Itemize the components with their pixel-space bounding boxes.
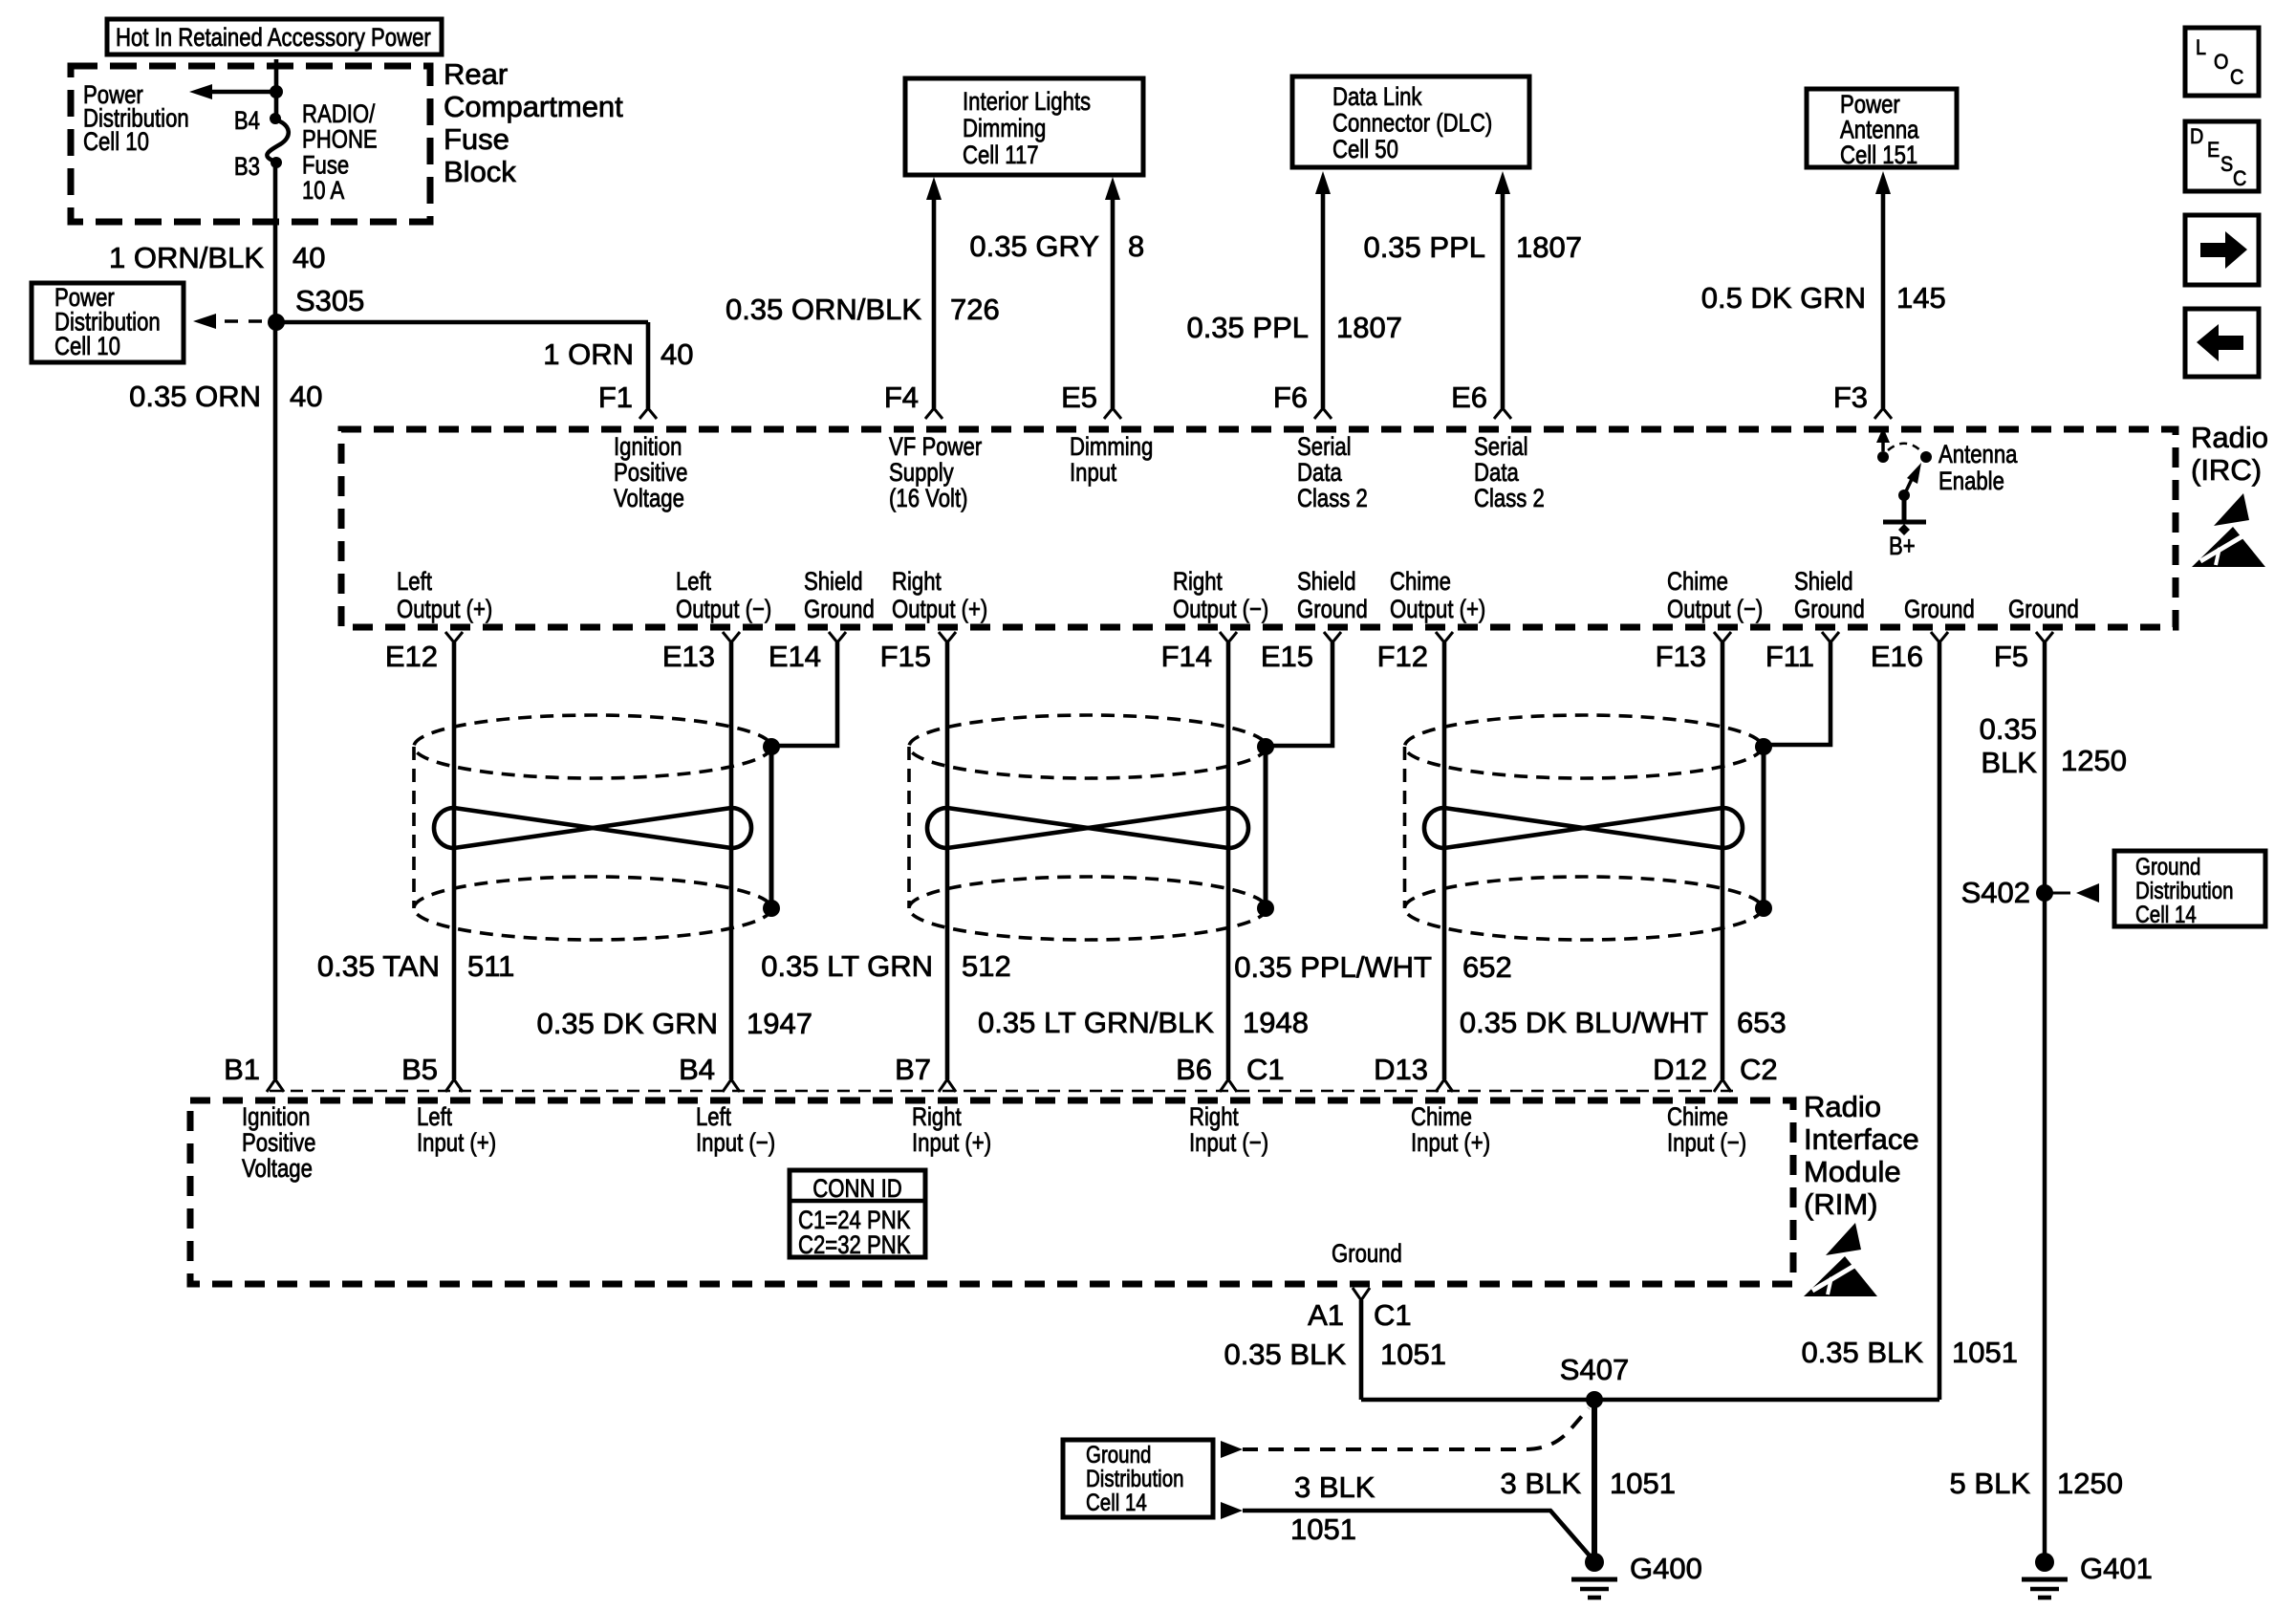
- svg-text:C: C: [2233, 166, 2246, 190]
- svg-text:Antenna: Antenna: [1840, 116, 1919, 144]
- svg-text:E16: E16: [1871, 640, 1923, 673]
- svg-text:(IRC): (IRC): [2191, 453, 2262, 487]
- svg-text:1 ORN/BLK: 1 ORN/BLK: [109, 241, 264, 274]
- svg-text:RADIO/: RADIO/: [302, 99, 376, 128]
- svg-text:B1: B1: [224, 1053, 260, 1086]
- svg-text:Left: Left: [417, 1102, 452, 1131]
- svg-text:Left: Left: [397, 567, 432, 596]
- svg-text:Distribution: Distribution: [2135, 878, 2234, 904]
- svg-text:512: 512: [962, 949, 1011, 983]
- svg-text:Power: Power: [1840, 90, 1900, 119]
- svg-text:1051: 1051: [1290, 1512, 1356, 1546]
- svg-text:Chime: Chime: [1667, 1102, 1728, 1131]
- svg-text:E15: E15: [1261, 640, 1313, 673]
- svg-text:1948: 1948: [1243, 1006, 1309, 1039]
- svg-text:S: S: [2220, 152, 2233, 176]
- svg-text:B5: B5: [401, 1053, 438, 1086]
- svg-text:Class 2: Class 2: [1297, 484, 1368, 512]
- svg-text:E12: E12: [385, 640, 438, 673]
- svg-text:Hot In Retained Accessory Powe: Hot In Retained Accessory Power: [116, 23, 431, 52]
- svg-text:BLK: BLK: [1981, 746, 2037, 779]
- svg-text:F1: F1: [598, 381, 633, 414]
- svg-text:Right: Right: [1189, 1102, 1239, 1131]
- svg-text:Output (+): Output (+): [892, 595, 987, 623]
- svg-text:Cell 151: Cell 151: [1840, 141, 1917, 169]
- svg-text:Connector (DLC): Connector (DLC): [1332, 109, 1492, 138]
- svg-text:Radio: Radio: [1804, 1090, 1881, 1123]
- svg-text:0.35 TAN: 0.35 TAN: [317, 949, 440, 983]
- svg-text:Left: Left: [696, 1102, 731, 1131]
- svg-text:1051: 1051: [1610, 1467, 1676, 1500]
- svg-text:Ground: Ground: [1297, 595, 1368, 623]
- svg-text:Voltage: Voltage: [614, 484, 684, 512]
- svg-text:Class 2: Class 2: [1474, 484, 1545, 512]
- svg-text:F12: F12: [1377, 640, 1428, 673]
- svg-text:Serial: Serial: [1474, 432, 1528, 461]
- svg-text:F11: F11: [1765, 640, 1814, 673]
- svg-text:Input (+): Input (+): [912, 1128, 991, 1157]
- svg-text:Voltage: Voltage: [242, 1154, 313, 1183]
- svg-text:G401: G401: [2080, 1552, 2153, 1585]
- svg-text:CONN ID: CONN ID: [812, 1174, 902, 1203]
- svg-text:(RIM): (RIM): [1804, 1187, 1877, 1221]
- svg-text:F13: F13: [1656, 640, 1706, 673]
- svg-text:Ignition: Ignition: [242, 1102, 310, 1131]
- svg-text:Output (−): Output (−): [1173, 595, 1268, 623]
- svg-text:Shield: Shield: [1794, 567, 1853, 596]
- svg-text:Enable: Enable: [1939, 467, 2004, 495]
- svg-text:Block: Block: [444, 155, 516, 188]
- svg-text:0.35 BLK: 0.35 BLK: [1224, 1338, 1346, 1371]
- svg-text:Compartment: Compartment: [444, 90, 623, 123]
- svg-text:3 BLK: 3 BLK: [1294, 1470, 1375, 1504]
- svg-text:A1: A1: [1308, 1298, 1344, 1332]
- svg-text:1807: 1807: [1336, 311, 1402, 344]
- svg-text:C2: C2: [1740, 1053, 1778, 1086]
- svg-text:B4: B4: [234, 106, 260, 135]
- svg-text:1051: 1051: [1952, 1336, 2018, 1369]
- svg-text:E14: E14: [769, 640, 821, 673]
- svg-text:Right: Right: [1173, 567, 1223, 596]
- svg-text:Radio: Radio: [2191, 421, 2268, 454]
- svg-text:Supply: Supply: [889, 458, 954, 487]
- svg-text:F14: F14: [1161, 640, 1212, 673]
- svg-text:Rear: Rear: [444, 57, 508, 91]
- svg-text:Cell 117: Cell 117: [963, 141, 1039, 169]
- svg-text:Input (+): Input (+): [1411, 1128, 1490, 1157]
- svg-text:D12: D12: [1653, 1053, 1707, 1086]
- svg-text:40: 40: [292, 241, 325, 274]
- svg-text:726: 726: [950, 293, 1000, 326]
- svg-text:8: 8: [1128, 229, 1144, 263]
- svg-text:Ground: Ground: [1332, 1239, 1402, 1268]
- svg-text:Ground: Ground: [804, 595, 875, 623]
- svg-text:1250: 1250: [2061, 744, 2127, 777]
- svg-text:Cell 50: Cell 50: [1332, 135, 1398, 163]
- svg-text:0.35 PPL/WHT: 0.35 PPL/WHT: [1234, 950, 1432, 984]
- svg-text:S402: S402: [1961, 876, 2030, 909]
- svg-text:E: E: [2207, 138, 2220, 162]
- svg-text:C1: C1: [1246, 1053, 1285, 1086]
- svg-text:Output (+): Output (+): [397, 595, 492, 623]
- svg-text:0.35 BLK: 0.35 BLK: [1801, 1336, 1923, 1369]
- svg-text:Shield: Shield: [804, 567, 863, 596]
- svg-text:511: 511: [467, 949, 514, 983]
- svg-text:1 ORN: 1 ORN: [543, 337, 634, 371]
- svg-text:Ground: Ground: [1794, 595, 1865, 623]
- svg-text:Left: Left: [676, 567, 711, 596]
- svg-text:Ground: Ground: [1086, 1442, 1151, 1469]
- svg-text:Cell 10: Cell 10: [83, 127, 149, 156]
- svg-text:Serial: Serial: [1297, 432, 1352, 461]
- svg-text:40: 40: [661, 337, 693, 371]
- svg-text:D13: D13: [1374, 1053, 1428, 1086]
- svg-text:0.35 GRY: 0.35 GRY: [969, 229, 1099, 263]
- svg-text:Fuse: Fuse: [444, 122, 509, 156]
- svg-text:0.35 LT GRN/BLK: 0.35 LT GRN/BLK: [978, 1006, 1214, 1039]
- svg-text:O: O: [2214, 50, 2228, 74]
- svg-text:Output (+): Output (+): [1390, 595, 1485, 623]
- svg-text:B3: B3: [234, 152, 260, 181]
- svg-text:S407: S407: [1560, 1353, 1629, 1386]
- svg-text:Right: Right: [892, 567, 942, 596]
- svg-text:B4: B4: [679, 1053, 715, 1086]
- svg-text:Input (+): Input (+): [417, 1128, 496, 1157]
- svg-text:Antenna: Antenna: [1939, 440, 2018, 468]
- svg-text:VF Power: VF Power: [889, 432, 982, 461]
- svg-text:F15: F15: [880, 640, 931, 673]
- svg-text:1051: 1051: [1380, 1338, 1446, 1371]
- svg-text:Input: Input: [1070, 458, 1117, 487]
- svg-text:Output (−): Output (−): [676, 595, 771, 623]
- svg-text:D: D: [2190, 124, 2203, 148]
- svg-text:E6: E6: [1451, 381, 1487, 414]
- svg-text:0.35 ORN: 0.35 ORN: [129, 380, 261, 413]
- svg-text:Cell 14: Cell 14: [1086, 1490, 1147, 1516]
- svg-text:0.35 LT GRN: 0.35 LT GRN: [761, 949, 933, 983]
- svg-text:Ignition: Ignition: [614, 432, 682, 461]
- svg-text:C: C: [2230, 65, 2243, 89]
- svg-text:(16 Volt): (16 Volt): [889, 484, 968, 512]
- svg-text:B6: B6: [1176, 1053, 1212, 1086]
- svg-text:L: L: [2196, 35, 2206, 59]
- svg-text:Interface: Interface: [1804, 1122, 1919, 1156]
- svg-text:Shield: Shield: [1297, 567, 1356, 596]
- svg-text:Data Link: Data Link: [1332, 82, 1422, 111]
- svg-text:3 BLK: 3 BLK: [1501, 1467, 1582, 1500]
- svg-text:1807: 1807: [1516, 230, 1582, 264]
- svg-text:Cell 10: Cell 10: [54, 332, 120, 360]
- svg-text:Right: Right: [912, 1102, 962, 1131]
- svg-text:F3: F3: [1833, 381, 1868, 414]
- svg-text:B7: B7: [895, 1053, 931, 1086]
- svg-text:Data: Data: [1297, 458, 1343, 487]
- svg-text:0.35 DK GRN: 0.35 DK GRN: [536, 1007, 718, 1040]
- svg-text:Dimming: Dimming: [963, 114, 1046, 142]
- svg-text:Chime: Chime: [1390, 567, 1451, 596]
- svg-text:40: 40: [290, 380, 322, 413]
- svg-text:0.35 PPL: 0.35 PPL: [1363, 230, 1485, 264]
- svg-text:E5: E5: [1061, 381, 1097, 414]
- svg-text:Positive: Positive: [242, 1128, 316, 1157]
- svg-text:Cell 14: Cell 14: [2135, 902, 2197, 928]
- svg-text:1250: 1250: [2057, 1467, 2123, 1500]
- svg-text:Output (−): Output (−): [1667, 595, 1763, 623]
- svg-text:5 BLK: 5 BLK: [1950, 1467, 2031, 1500]
- svg-text:Ground: Ground: [1904, 595, 1975, 623]
- svg-text:Distribution: Distribution: [1086, 1466, 1184, 1492]
- svg-text:Positive: Positive: [614, 458, 688, 487]
- svg-text:S305: S305: [295, 284, 364, 317]
- svg-text:Ground: Ground: [2135, 854, 2200, 881]
- svg-text:Data: Data: [1474, 458, 1520, 487]
- svg-text:0.35 DK BLU/WHT: 0.35 DK BLU/WHT: [1460, 1006, 1708, 1039]
- svg-text:0.35 ORN/BLK: 0.35 ORN/BLK: [726, 293, 921, 326]
- svg-text:PHONE: PHONE: [302, 125, 378, 154]
- svg-text:F5: F5: [1994, 640, 2028, 673]
- svg-text:652: 652: [1462, 950, 1512, 984]
- svg-text:Input (−): Input (−): [696, 1128, 775, 1157]
- svg-text:C1: C1: [1374, 1298, 1412, 1332]
- svg-text:G400: G400: [1630, 1552, 1702, 1585]
- svg-text:Chime: Chime: [1411, 1102, 1472, 1131]
- svg-text:Interior Lights: Interior Lights: [963, 87, 1091, 116]
- svg-text:C2=32 PNK: C2=32 PNK: [798, 1230, 911, 1259]
- svg-text:0.35: 0.35: [1980, 712, 2037, 746]
- svg-text:1947: 1947: [747, 1007, 812, 1040]
- svg-text:Input (−): Input (−): [1189, 1128, 1268, 1157]
- svg-text:F6: F6: [1273, 381, 1308, 414]
- svg-text:F4: F4: [884, 381, 919, 414]
- svg-text:B+: B+: [1889, 532, 1916, 560]
- svg-text:Input (−): Input (−): [1667, 1128, 1746, 1157]
- svg-text:653: 653: [1737, 1006, 1787, 1039]
- svg-text:0.35 PPL: 0.35 PPL: [1186, 311, 1309, 344]
- svg-text:145: 145: [1896, 281, 1946, 315]
- svg-text:Dimming: Dimming: [1070, 432, 1153, 461]
- svg-text:Ground: Ground: [2008, 595, 2079, 623]
- svg-text:Chime: Chime: [1667, 567, 1728, 596]
- svg-text:0.5 DK GRN: 0.5 DK GRN: [1701, 281, 1866, 315]
- svg-text:Fuse: Fuse: [302, 150, 349, 179]
- svg-text:Module: Module: [1804, 1155, 1901, 1188]
- svg-text:E13: E13: [662, 640, 715, 673]
- svg-text:10 A: 10 A: [302, 176, 344, 205]
